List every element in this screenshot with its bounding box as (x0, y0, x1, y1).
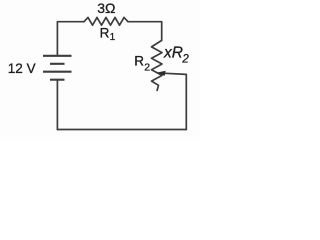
svg-text:3Ω: 3Ω (97, 0, 115, 16)
wire R1 to top-right corner and down to R2 (128, 22, 162, 41)
resistor R2 (vertical, rheostat body) (152, 40, 163, 90)
svg-text:2: 2 (181, 53, 189, 65)
svg-text:xR: xR (163, 44, 183, 61)
svg-text:R: R (100, 25, 110, 40)
svg-text:12 V: 12 V (8, 61, 36, 76)
wire top-left: battery positive up and across to R1 (57, 22, 84, 56)
battery B1 (12 V) plates (43, 56, 72, 80)
resistor R1 (84, 17, 128, 25)
rheostat R2 wiper arrow head (156, 71, 166, 76)
wire battery negative down to bottom rail (56, 80, 58, 130)
svg-text:R: R (134, 54, 144, 69)
wiper wire from arrow to right riser (165, 73, 186, 129)
svg-text:1: 1 (110, 32, 116, 43)
svg-text:2: 2 (144, 61, 150, 73)
wire bottom rail (57, 129, 186, 131)
